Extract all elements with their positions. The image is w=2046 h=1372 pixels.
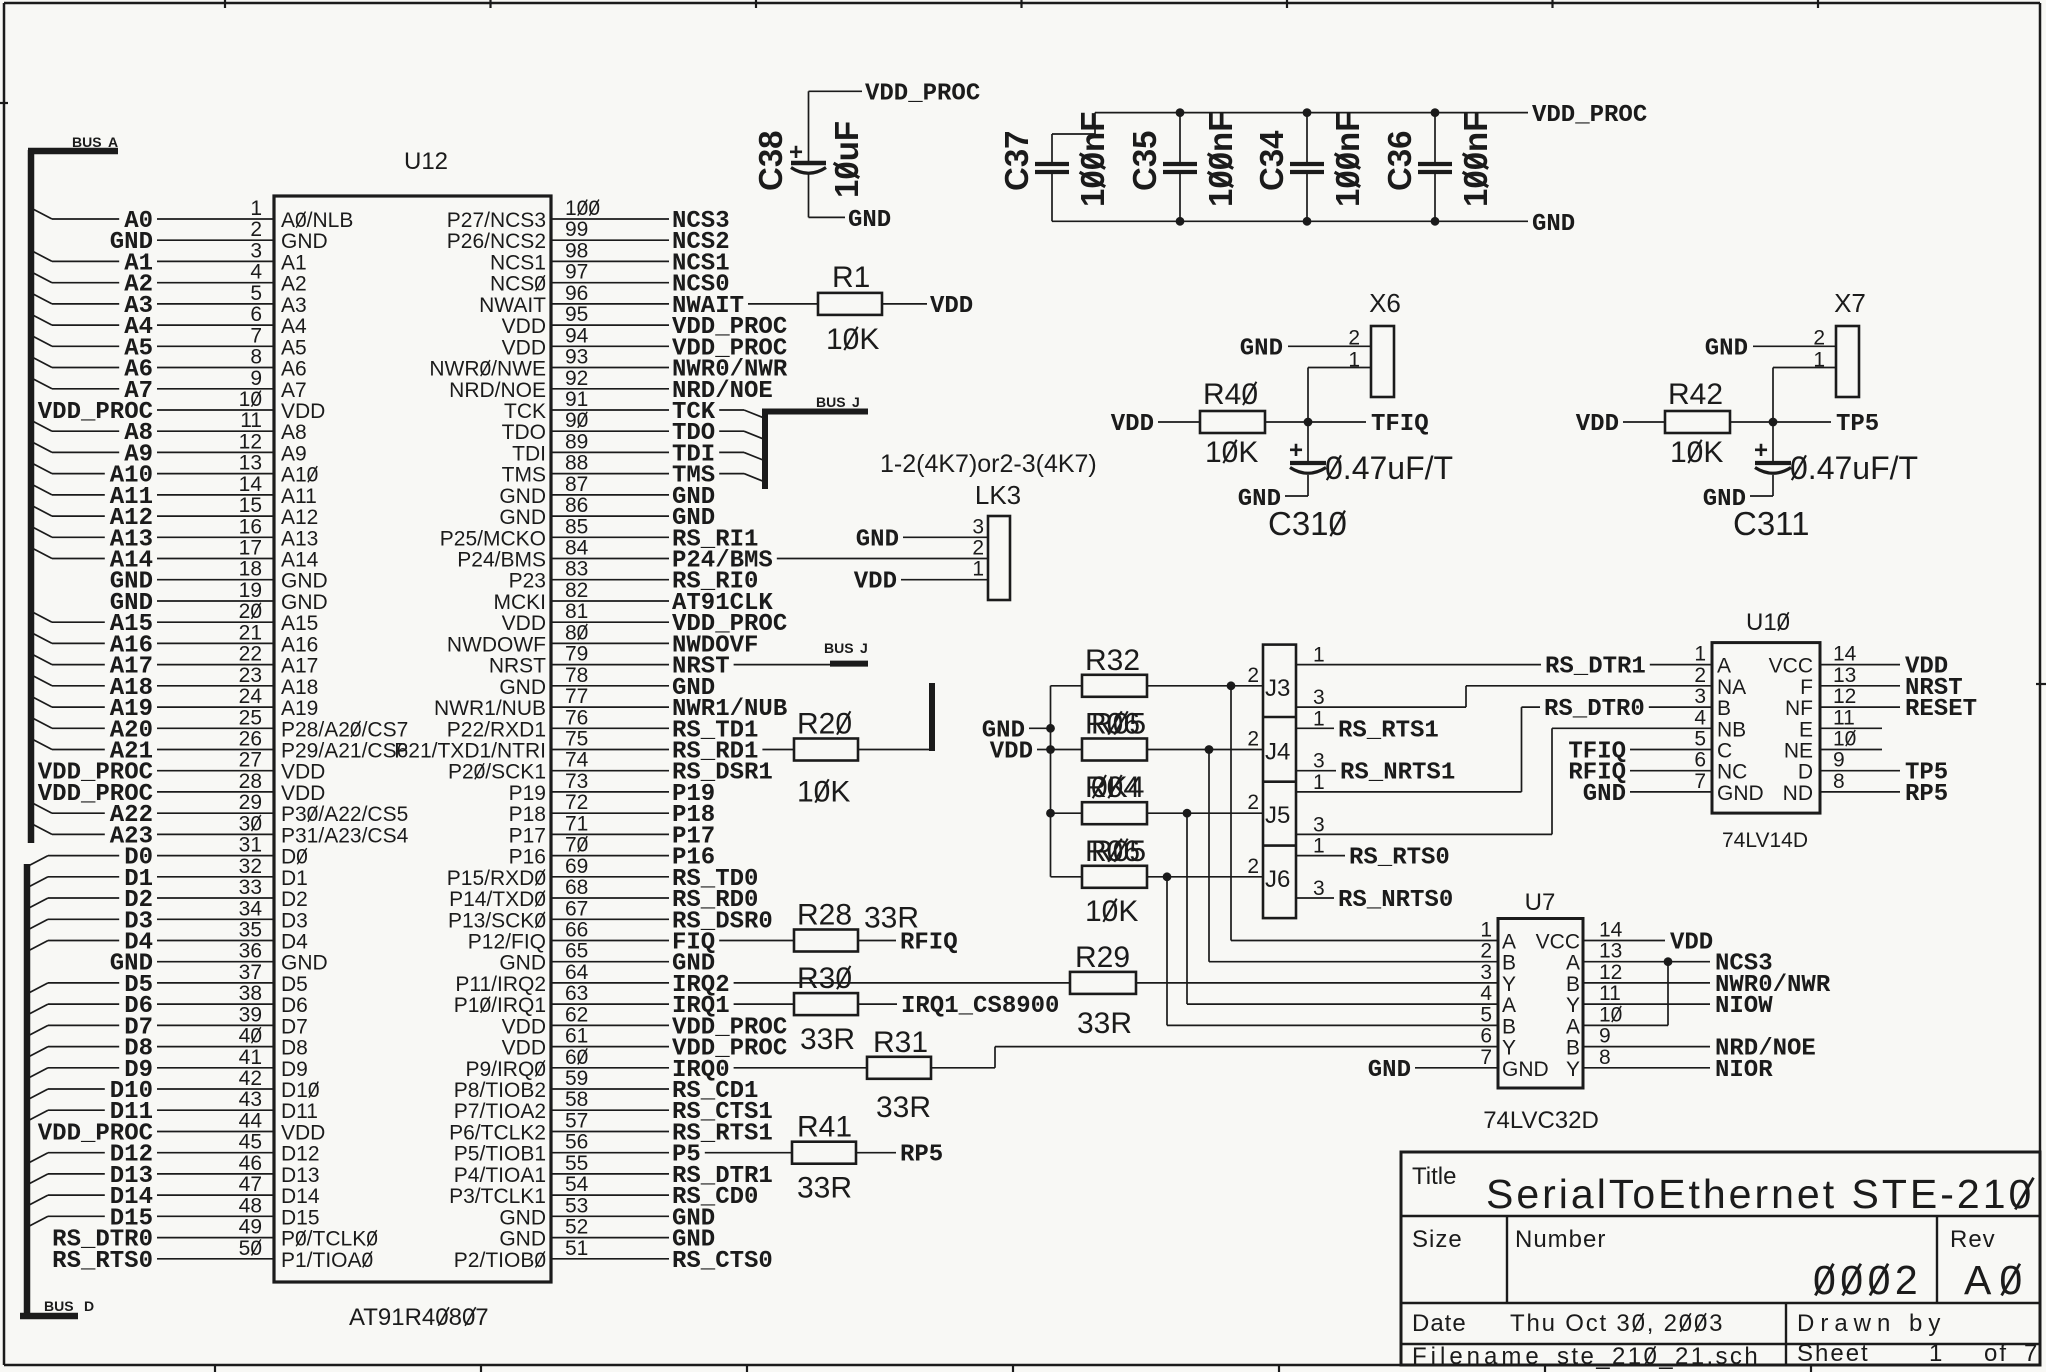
svg-text:NWAIT: NWAIT xyxy=(479,294,546,317)
svg-text:VCC: VCC xyxy=(1536,931,1580,954)
svg-text:VDD: VDD xyxy=(502,1037,546,1060)
svg-text:NC: NC xyxy=(1717,761,1747,784)
svg-text:GND: GND xyxy=(1368,1057,1411,1084)
svg-text:48: 48 xyxy=(239,1194,262,1217)
svg-text:J5: J5 xyxy=(1265,802,1290,829)
svg-text:C311: C311 xyxy=(1733,505,1809,542)
svg-text:NB: NB xyxy=(1717,718,1746,741)
svg-text:1-2(4K7)or2-3(4K7): 1-2(4K7)or2-3(4K7) xyxy=(880,450,1097,478)
svg-text:GND: GND xyxy=(499,952,546,975)
svg-text:10: 10 xyxy=(1833,728,1856,751)
svg-text:R05: R05 xyxy=(1091,835,1146,868)
svg-text:33R: 33R xyxy=(864,902,919,935)
svg-text:D4: D4 xyxy=(281,931,308,954)
svg-text:A16: A16 xyxy=(281,633,318,656)
svg-text:VDD: VDD xyxy=(990,739,1033,766)
svg-text:9: 9 xyxy=(250,367,262,390)
svg-text:3: 3 xyxy=(1313,813,1325,836)
svg-text:34: 34 xyxy=(239,897,263,920)
svg-text:D: D xyxy=(1798,761,1813,784)
svg-text:R32: R32 xyxy=(1085,644,1140,677)
svg-text:B: B xyxy=(1566,973,1580,996)
svg-text:2: 2 xyxy=(972,537,984,560)
svg-text:5: 5 xyxy=(1480,1003,1492,1026)
svg-text:5: 5 xyxy=(250,282,262,305)
svg-text:F: F xyxy=(1800,676,1813,699)
svg-text:33R: 33R xyxy=(797,1172,852,1205)
svg-text:D0: D0 xyxy=(281,846,308,869)
svg-text:15: 15 xyxy=(239,494,262,517)
svg-text:P7/TIOA2: P7/TIOA2 xyxy=(454,1100,546,1123)
svg-text:11: 11 xyxy=(1599,982,1621,1005)
svg-text:A14: A14 xyxy=(281,549,319,572)
svg-text:52: 52 xyxy=(565,1216,588,1239)
svg-text:33: 33 xyxy=(239,876,262,899)
svg-text:10: 10 xyxy=(239,388,262,411)
svg-text:1: 1 xyxy=(1480,919,1492,942)
svg-text:74LV14D: 74LV14D xyxy=(1722,829,1808,852)
svg-text:VDD: VDD xyxy=(1576,411,1619,438)
svg-text:D7: D7 xyxy=(281,1015,308,1038)
svg-text:2: 2 xyxy=(1247,855,1259,878)
svg-text:90: 90 xyxy=(565,409,588,432)
svg-text:10K: 10K xyxy=(826,323,879,356)
svg-text:63: 63 xyxy=(565,982,588,1005)
svg-text:Y: Y xyxy=(1502,973,1516,996)
svg-text:R29: R29 xyxy=(1075,941,1130,974)
svg-text:72: 72 xyxy=(565,791,588,814)
svg-text:B: B xyxy=(1717,697,1731,720)
svg-text:A: A xyxy=(1717,655,1731,678)
svg-text:X6: X6 xyxy=(1369,288,1401,318)
svg-text:85: 85 xyxy=(565,515,588,538)
svg-text:Drawn by: Drawn by xyxy=(1797,1310,1946,1337)
svg-text:C: C xyxy=(1717,740,1732,763)
svg-text:VDD: VDD xyxy=(281,1122,325,1145)
svg-text:41: 41 xyxy=(239,1046,262,1069)
svg-text:U7: U7 xyxy=(1525,889,1556,916)
svg-text:VDD: VDD xyxy=(502,315,546,338)
svg-text:RS_CTS0: RS_CTS0 xyxy=(672,1248,773,1275)
svg-text:75: 75 xyxy=(565,728,588,751)
svg-text:D15: D15 xyxy=(281,1206,320,1229)
svg-text:A: A xyxy=(1502,931,1516,954)
svg-text:56: 56 xyxy=(565,1131,588,1154)
svg-text:2: 2 xyxy=(1348,326,1360,349)
svg-text:GND: GND xyxy=(281,230,328,253)
svg-text:10K: 10K xyxy=(797,776,850,809)
svg-text:10: 10 xyxy=(1599,1003,1622,1026)
svg-text:GND: GND xyxy=(281,952,328,975)
svg-text:43: 43 xyxy=(239,1088,262,1111)
svg-text:J: J xyxy=(852,394,860,410)
svg-text:8: 8 xyxy=(1833,770,1845,793)
svg-text:30: 30 xyxy=(239,812,262,835)
svg-text:TDI: TDI xyxy=(512,442,546,465)
svg-text:+: + xyxy=(1289,437,1303,464)
svg-text:BUS: BUS xyxy=(72,134,102,150)
svg-text:Y: Y xyxy=(1566,994,1580,1017)
svg-text:64: 64 xyxy=(565,961,589,984)
svg-text:55: 55 xyxy=(565,1152,588,1175)
svg-text:14: 14 xyxy=(239,473,263,496)
svg-text:P1/TIOA0: P1/TIOA0 xyxy=(281,1249,373,1272)
svg-text:P2/TIOB0: P2/TIOB0 xyxy=(454,1249,546,1272)
svg-text:28: 28 xyxy=(239,770,262,793)
svg-text:RESET: RESET xyxy=(1905,696,1977,723)
svg-text:69: 69 xyxy=(565,855,588,878)
svg-text:NE: NE xyxy=(1784,740,1813,763)
svg-text:3: 3 xyxy=(250,239,262,262)
svg-text:87: 87 xyxy=(565,473,588,496)
svg-text:1: 1 xyxy=(1313,835,1325,858)
svg-text:1: 1 xyxy=(1929,1340,1942,1367)
svg-text:NRD/NOE: NRD/NOE xyxy=(449,379,546,402)
svg-text:RS_RTS0: RS_RTS0 xyxy=(1349,845,1450,872)
svg-text:83: 83 xyxy=(565,558,588,581)
svg-text:GND: GND xyxy=(1240,335,1283,362)
svg-text:74: 74 xyxy=(565,749,589,772)
svg-text:81: 81 xyxy=(565,600,588,623)
svg-text:GND: GND xyxy=(499,506,546,529)
svg-text:P15/RXD0: P15/RXD0 xyxy=(447,867,546,890)
svg-text:26: 26 xyxy=(239,728,262,751)
svg-text:GND: GND xyxy=(499,676,546,699)
svg-text:J6: J6 xyxy=(1265,866,1290,893)
svg-text:GND: GND xyxy=(1717,782,1764,805)
svg-text:1: 1 xyxy=(1313,644,1325,667)
svg-text:ND: ND xyxy=(1783,782,1813,805)
svg-text:TP5: TP5 xyxy=(1836,411,1879,438)
svg-text:24: 24 xyxy=(239,685,263,708)
svg-text:P12/FIQ: P12/FIQ xyxy=(468,931,546,954)
svg-text:68: 68 xyxy=(565,876,588,899)
svg-text:R1: R1 xyxy=(832,261,870,294)
svg-text:GND: GND xyxy=(499,1228,546,1251)
svg-text:NRST: NRST xyxy=(489,655,546,678)
svg-text:VDD: VDD xyxy=(502,336,546,359)
svg-text:0.47uF/T: 0.47uF/T xyxy=(1325,450,1453,486)
svg-text:0.47uF/T: 0.47uF/T xyxy=(1790,450,1918,486)
svg-text:P10/IRQ1: P10/IRQ1 xyxy=(454,994,546,1017)
svg-text:P18: P18 xyxy=(509,803,546,826)
svg-text:36: 36 xyxy=(239,940,262,963)
svg-text:J4: J4 xyxy=(1265,739,1290,766)
svg-text:74LVC32D: 74LVC32D xyxy=(1483,1107,1599,1134)
svg-text:12: 12 xyxy=(1599,961,1622,984)
svg-text:19: 19 xyxy=(239,579,262,602)
svg-text:BUS: BUS xyxy=(44,1298,74,1314)
svg-text:P26/NCS2: P26/NCS2 xyxy=(447,230,546,253)
svg-text:12: 12 xyxy=(239,430,262,453)
svg-text:1: 1 xyxy=(1313,771,1325,794)
svg-text:R28: R28 xyxy=(797,899,852,932)
svg-text:A1: A1 xyxy=(281,251,307,274)
svg-text:44: 44 xyxy=(239,1110,263,1133)
svg-text:RS_DTR1: RS_DTR1 xyxy=(1545,654,1646,681)
svg-text:Y: Y xyxy=(1502,1037,1516,1060)
svg-text:C310: C310 xyxy=(1268,505,1347,542)
svg-text:38: 38 xyxy=(239,982,262,1005)
svg-text:B: B xyxy=(1502,952,1516,975)
svg-text:RS_NRTS1: RS_NRTS1 xyxy=(1340,760,1455,787)
svg-text:21: 21 xyxy=(239,621,262,644)
svg-text:A: A xyxy=(1566,952,1580,975)
svg-text:11: 11 xyxy=(240,409,262,432)
svg-text:B: B xyxy=(1566,1037,1580,1060)
svg-text:A2: A2 xyxy=(281,273,307,296)
svg-text:R41: R41 xyxy=(797,1111,852,1144)
svg-text:P27/NCS3: P27/NCS3 xyxy=(447,209,546,232)
svg-text:Filename: Filename xyxy=(1412,1343,1543,1370)
svg-text:A4: A4 xyxy=(281,315,307,338)
svg-text:Y: Y xyxy=(1566,1058,1580,1081)
svg-text:80: 80 xyxy=(565,621,588,644)
svg-text:P30/A22/CS5: P30/A22/CS5 xyxy=(281,803,408,826)
svg-text:1: 1 xyxy=(1694,643,1706,666)
svg-text:Thu Oct 30, 2003: Thu Oct 30, 2003 xyxy=(1510,1310,1724,1337)
svg-text:79: 79 xyxy=(565,643,588,666)
svg-text:P16: P16 xyxy=(509,846,546,869)
svg-text:A: A xyxy=(108,134,118,150)
svg-text:P11/IRQ2: P11/IRQ2 xyxy=(455,973,546,996)
svg-text:100nF: 100nF xyxy=(1329,112,1366,207)
svg-text:NWR0/NWE: NWR0/NWE xyxy=(429,358,546,381)
svg-text:13: 13 xyxy=(1599,940,1622,963)
svg-text:P0/TCLK0: P0/TCLK0 xyxy=(281,1228,378,1251)
svg-text:VDD: VDD xyxy=(281,782,325,805)
svg-text:73: 73 xyxy=(565,770,588,793)
svg-text:X7: X7 xyxy=(1834,288,1866,318)
svg-text:1: 1 xyxy=(1313,707,1325,730)
svg-text:GND: GND xyxy=(848,207,891,234)
svg-text:2: 2 xyxy=(1247,728,1259,751)
svg-text:VDD_PROC: VDD_PROC xyxy=(1532,102,1647,129)
svg-text:23: 23 xyxy=(239,664,262,687)
svg-text:12: 12 xyxy=(1833,685,1856,708)
svg-text:50: 50 xyxy=(239,1237,262,1260)
svg-text:NWR1/NUB: NWR1/NUB xyxy=(434,697,546,720)
svg-text:P3/TCLK1: P3/TCLK1 xyxy=(449,1185,546,1208)
svg-text:33R: 33R xyxy=(876,1091,931,1124)
svg-text:of: of xyxy=(1984,1340,2008,1367)
svg-text:39: 39 xyxy=(239,1003,262,1026)
svg-text:D9: D9 xyxy=(281,1058,308,1081)
svg-text:D3: D3 xyxy=(281,909,308,932)
svg-text:A17: A17 xyxy=(281,655,318,678)
svg-text:32: 32 xyxy=(239,855,262,878)
svg-text:A19: A19 xyxy=(281,697,318,720)
svg-text:4: 4 xyxy=(250,261,262,284)
svg-text:VDD: VDD xyxy=(1670,930,1713,957)
svg-text:89: 89 xyxy=(565,430,588,453)
svg-text:3: 3 xyxy=(1313,686,1325,709)
svg-text:P25/MCKO: P25/MCKO xyxy=(440,527,546,550)
svg-text:TMS: TMS xyxy=(502,464,546,487)
svg-text:P24/BMS: P24/BMS xyxy=(457,549,546,572)
svg-text:65: 65 xyxy=(565,940,588,963)
svg-text:P14/TXD0: P14/TXD0 xyxy=(449,888,546,911)
svg-text:84: 84 xyxy=(565,537,589,560)
svg-text:P13/SCK0: P13/SCK0 xyxy=(448,909,546,932)
svg-text:11: 11 xyxy=(1833,706,1855,729)
svg-text:P21/TXD1/NTRI: P21/TXD1/NTRI xyxy=(394,740,546,763)
svg-text:35: 35 xyxy=(239,919,262,942)
svg-text:9: 9 xyxy=(1833,749,1845,772)
svg-text:A9: A9 xyxy=(281,442,307,465)
svg-text:LK3: LK3 xyxy=(975,480,1021,510)
svg-text:VDD: VDD xyxy=(854,569,897,596)
svg-text:7: 7 xyxy=(1480,1046,1492,1069)
svg-text:GND: GND xyxy=(856,526,899,553)
svg-text:GND: GND xyxy=(499,1206,546,1229)
svg-text:TCK: TCK xyxy=(504,400,546,423)
svg-text:GND: GND xyxy=(1705,335,1748,362)
svg-text:47: 47 xyxy=(239,1173,262,1196)
svg-text:3: 3 xyxy=(1313,877,1325,900)
svg-text:B: B xyxy=(1502,1015,1516,1038)
svg-text:42: 42 xyxy=(239,1067,262,1090)
svg-text:RS_NRTS0: RS_NRTS0 xyxy=(1338,887,1453,914)
svg-text:13: 13 xyxy=(1833,664,1856,687)
svg-text:A0/NLB: A0/NLB xyxy=(281,209,353,232)
svg-text:33R: 33R xyxy=(1077,1007,1132,1040)
svg-text:86: 86 xyxy=(565,494,588,517)
svg-text:D1: D1 xyxy=(281,867,308,890)
svg-text:GND: GND xyxy=(281,591,328,614)
svg-text:37: 37 xyxy=(239,961,262,984)
svg-text:C35: C35 xyxy=(1126,130,1163,191)
svg-text:77: 77 xyxy=(565,685,588,708)
svg-text:IRQ1_CS8900: IRQ1_CS8900 xyxy=(901,993,1059,1020)
svg-text:C36: C36 xyxy=(1381,130,1418,191)
svg-text:A: A xyxy=(1566,1015,1580,1038)
svg-text:2: 2 xyxy=(250,218,262,241)
svg-text:P29/A21/CS6: P29/A21/CS6 xyxy=(281,740,408,763)
svg-text:2: 2 xyxy=(1247,664,1259,687)
svg-text:Number: Number xyxy=(1515,1226,1606,1253)
svg-text:8: 8 xyxy=(250,346,262,369)
svg-text:A7: A7 xyxy=(281,379,307,402)
svg-text:53: 53 xyxy=(565,1194,588,1217)
svg-text:3: 3 xyxy=(1313,750,1325,773)
svg-text:VCC: VCC xyxy=(1769,655,1813,678)
svg-text:14: 14 xyxy=(1833,643,1857,666)
svg-text:2: 2 xyxy=(1694,664,1706,687)
svg-text:VDD: VDD xyxy=(502,1015,546,1038)
svg-text:VDD: VDD xyxy=(281,400,325,423)
svg-text:10K: 10K xyxy=(1205,436,1258,469)
svg-text:10uF: 10uF xyxy=(828,121,865,198)
svg-text:1: 1 xyxy=(972,558,984,581)
svg-text:18: 18 xyxy=(239,558,262,581)
svg-text:6: 6 xyxy=(1480,1025,1492,1048)
svg-text:P19: P19 xyxy=(509,782,546,805)
svg-text:NIOW: NIOW xyxy=(1715,993,1773,1020)
svg-text:62: 62 xyxy=(565,1003,588,1026)
svg-text:P6/TCLK2: P6/TCLK2 xyxy=(449,1122,546,1145)
svg-text:A8: A8 xyxy=(281,421,307,444)
svg-text:D8: D8 xyxy=(281,1037,308,1060)
svg-text:GND: GND xyxy=(1583,781,1626,808)
svg-text:57: 57 xyxy=(565,1110,588,1133)
svg-text:P23: P23 xyxy=(509,570,546,593)
svg-text:C34: C34 xyxy=(1253,130,1290,191)
svg-text:AT91R40807: AT91R40807 xyxy=(349,1304,489,1331)
svg-text:58: 58 xyxy=(565,1088,588,1111)
svg-text:A15: A15 xyxy=(281,612,318,635)
svg-text:RP5: RP5 xyxy=(1905,781,1948,808)
svg-text:7: 7 xyxy=(250,324,262,347)
svg-text:67: 67 xyxy=(565,897,588,920)
svg-text:6: 6 xyxy=(250,303,262,326)
svg-text:88: 88 xyxy=(565,452,588,475)
svg-text:27: 27 xyxy=(239,749,262,772)
svg-text:54: 54 xyxy=(565,1173,589,1196)
svg-text:GND: GND xyxy=(1532,211,1575,238)
svg-text:P4/TIOA1: P4/TIOA1 xyxy=(454,1164,546,1187)
svg-text:P22/RXD1: P22/RXD1 xyxy=(447,718,546,741)
svg-text:10K: 10K xyxy=(1085,895,1138,928)
svg-text:BUS: BUS xyxy=(816,394,846,410)
svg-text:100nF: 100nF xyxy=(1074,112,1111,207)
svg-text:7: 7 xyxy=(1694,770,1706,793)
svg-text:R05: R05 xyxy=(1091,708,1146,741)
svg-text:GND: GND xyxy=(281,570,328,593)
svg-text:96: 96 xyxy=(565,282,588,305)
svg-text:VDD_PROC: VDD_PROC xyxy=(865,81,980,108)
svg-text:A6: A6 xyxy=(281,358,307,381)
svg-text:92: 92 xyxy=(565,367,588,390)
svg-text:8: 8 xyxy=(1599,1046,1611,1069)
svg-text:2: 2 xyxy=(1247,791,1259,814)
svg-text:NCS1: NCS1 xyxy=(490,251,546,274)
svg-text:C37: C37 xyxy=(998,130,1035,191)
svg-text:82: 82 xyxy=(565,579,588,602)
svg-text:NA: NA xyxy=(1717,676,1746,699)
svg-text:20: 20 xyxy=(239,600,262,623)
svg-text:MCKI: MCKI xyxy=(494,591,547,614)
svg-text:RP5: RP5 xyxy=(900,1142,943,1169)
svg-text:29: 29 xyxy=(239,791,262,814)
svg-text:P31/A23/CS4: P31/A23/CS4 xyxy=(281,824,409,847)
svg-text:2: 2 xyxy=(1813,326,1825,349)
svg-text:J3: J3 xyxy=(1265,675,1290,702)
svg-text:51: 51 xyxy=(565,1237,588,1260)
svg-text:A18: A18 xyxy=(281,676,318,699)
svg-text:3: 3 xyxy=(972,515,984,538)
svg-text:A12: A12 xyxy=(281,506,318,529)
svg-text:6: 6 xyxy=(1694,749,1706,772)
svg-text:D11: D11 xyxy=(281,1100,318,1123)
svg-text:NIOR: NIOR xyxy=(1715,1057,1773,1084)
svg-text:GND: GND xyxy=(1502,1058,1549,1081)
svg-text:70: 70 xyxy=(565,834,588,857)
svg-text:D: D xyxy=(84,1298,94,1314)
svg-text:Sheet: Sheet xyxy=(1797,1340,1870,1367)
svg-text:A13: A13 xyxy=(281,527,318,550)
svg-text:RS_RTS1: RS_RTS1 xyxy=(1338,717,1439,744)
svg-text:A5: A5 xyxy=(281,336,307,359)
svg-text:4: 4 xyxy=(1694,706,1706,729)
svg-text:SerialToEthernet STE-210: SerialToEthernet STE-210 xyxy=(1486,1171,2034,1217)
svg-text:NF: NF xyxy=(1785,697,1813,720)
svg-text:93: 93 xyxy=(565,346,588,369)
svg-text:+: + xyxy=(789,139,803,166)
svg-text:R31: R31 xyxy=(873,1026,928,1059)
svg-text:66: 66 xyxy=(565,919,588,942)
svg-text:1: 1 xyxy=(250,197,262,220)
